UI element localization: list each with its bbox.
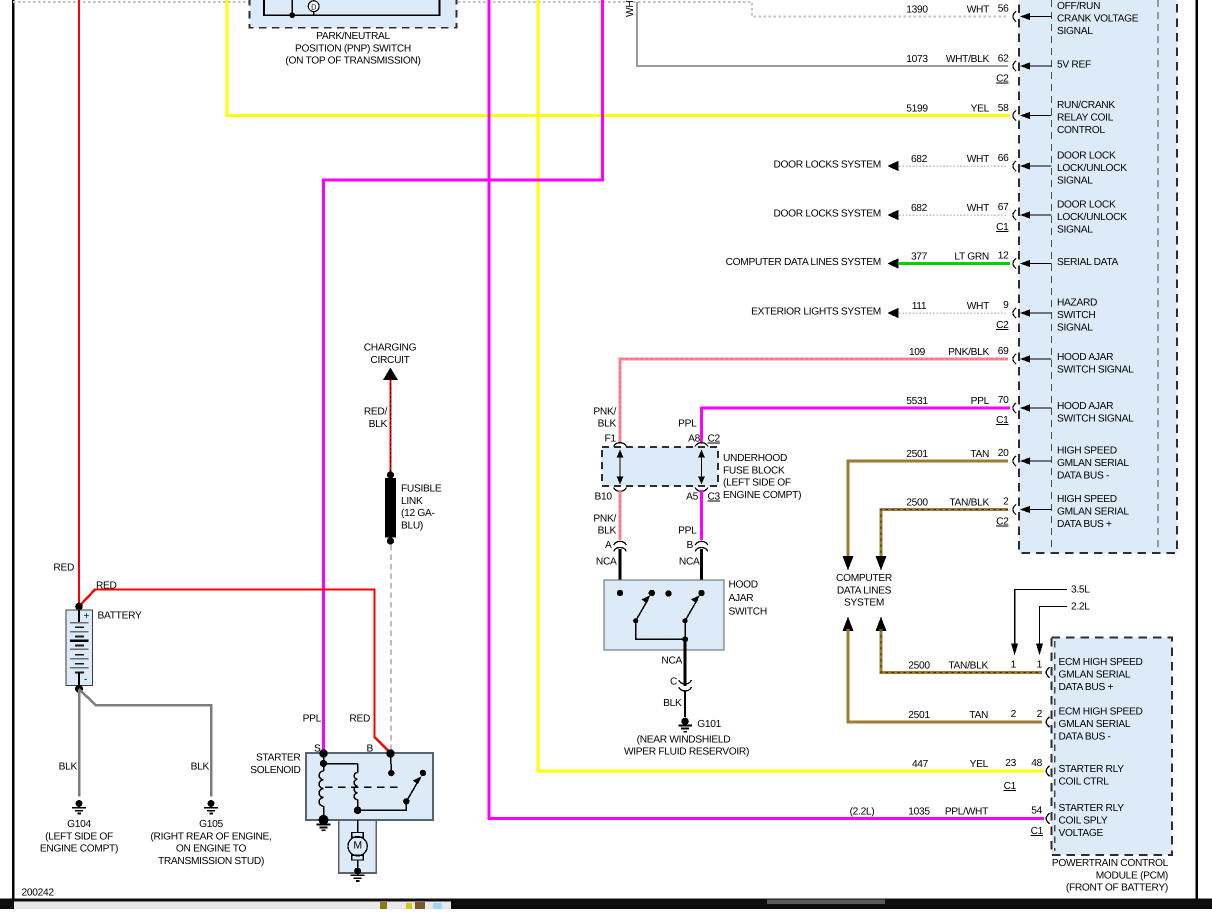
svg-text:D: D xyxy=(311,3,317,12)
node COMPUTER DATA LINES SYSTEM xyxy=(836,573,892,609)
pin 54 xyxy=(1031,806,1044,838)
svg-text:SWITCH: SWITCH xyxy=(729,607,767,618)
PCM pin connector at y=215 xyxy=(1013,200,1127,236)
svg-text:DOOR LOCK: DOOR LOCK xyxy=(1057,151,1116,162)
svg-text:SWITCH: SWITCH xyxy=(1057,310,1095,321)
svg-text:BLK: BLK xyxy=(369,419,388,430)
svg-text:(LEFT SIDE OF: (LEFT SIDE OF xyxy=(723,478,791,489)
svg-text:LOCK/UNLOCK: LOCK/UNLOCK xyxy=(1057,212,1127,223)
svg-text:2500: 2500 xyxy=(906,498,928,509)
PCM connector box (lower) xyxy=(1052,638,1173,856)
pin 70 xyxy=(996,395,1009,426)
svg-text:STARTER RLY: STARTER RLY xyxy=(1059,803,1125,814)
pin 56 xyxy=(998,4,1009,15)
svg-text:SIGNAL: SIGNAL xyxy=(1057,175,1093,186)
wire 377 LT GRN serial data xyxy=(726,252,1010,269)
wire PPL fuse A5 to connector B xyxy=(678,490,701,540)
svg-text:DOOR LOCKS SYSTEM: DOOR LOCKS SYSTEM xyxy=(773,209,881,220)
svg-text:66: 66 xyxy=(998,153,1009,164)
wire BLK battery to ground G105 xyxy=(79,689,211,797)
wire 1390 WHT to PCM pin 56 xyxy=(13,2,1008,17)
svg-text:SWITCH SIGNAL: SWITCH SIGNAL xyxy=(1057,364,1134,375)
svg-text:C1: C1 xyxy=(996,222,1009,233)
svg-text:BLK: BLK xyxy=(598,526,617,537)
svg-text:SOLENOID: SOLENOID xyxy=(250,765,300,776)
svg-text:C1: C1 xyxy=(996,415,1009,426)
svg-text:5531: 5531 xyxy=(906,396,928,407)
svg-text:682: 682 xyxy=(911,154,928,165)
PCM lower pin connector at y=722 xyxy=(1046,707,1142,743)
svg-text:TAN/BLK: TAN/BLK xyxy=(948,661,988,672)
svg-text:+: + xyxy=(84,611,90,622)
ground G104 xyxy=(40,800,118,855)
svg-text:STARTER: STARTER xyxy=(256,753,301,764)
svg-text:12: 12 xyxy=(998,251,1009,262)
PCM pin connector at y=461 xyxy=(1013,446,1129,482)
svg-text:POSITION (PNP) SWITCH: POSITION (PNP) SWITCH xyxy=(295,43,411,54)
svg-text:SERIAL DATA: SERIAL DATA xyxy=(1057,257,1119,268)
svg-text:SIGNAL: SIGNAL xyxy=(1057,26,1093,37)
svg-text:F1: F1 xyxy=(605,434,617,445)
diagram number 200242 xyxy=(22,887,55,898)
svg-text:CHARGING: CHARGING xyxy=(364,343,417,354)
svg-text:TRANSMISSION STUD): TRANSMISSION STUD) xyxy=(158,856,264,867)
svg-text:54: 54 xyxy=(1031,806,1042,817)
PCM lower pin connector at y=672.5 xyxy=(1046,657,1142,693)
wire 5199 YEL run/crank relay coil control xyxy=(227,0,1010,116)
svg-text:(FRONT OF BATTERY): (FRONT OF BATTERY) xyxy=(1066,883,1168,894)
svg-text:BLK: BLK xyxy=(191,762,210,773)
svg-text:G101: G101 xyxy=(697,719,721,730)
PCM lower pin connector at y=771 xyxy=(1046,764,1124,787)
pin 20 xyxy=(998,448,1009,459)
node 2.2L pin designator xyxy=(1036,602,1090,656)
starter motor M xyxy=(339,820,376,874)
svg-text:B10: B10 xyxy=(595,492,613,503)
svg-text:1073: 1073 xyxy=(906,54,928,65)
svg-text:CRANK VOLTAGE: CRANK VOLTAGE xyxy=(1057,14,1139,25)
svg-text:AJAR: AJAR xyxy=(729,593,754,604)
svg-text:ECM HIGH SPEED: ECM HIGH SPEED xyxy=(1059,657,1143,668)
svg-text:682: 682 xyxy=(911,203,928,214)
svg-text:OFF/RUN: OFF/RUN xyxy=(1057,1,1100,12)
wire fusible link to solenoid B (unspecified) xyxy=(390,545,392,751)
svg-text:200242: 200242 xyxy=(22,887,55,898)
svg-text:CIRCUIT: CIRCUIT xyxy=(370,355,409,366)
svg-text:HIGH SPEED: HIGH SPEED xyxy=(1057,494,1117,505)
wire 5531 PPL hood ajar to fuse A8 xyxy=(678,396,1010,442)
pin 23/48 xyxy=(1004,758,1043,792)
PCM lower pin connector at y=818.5 xyxy=(1046,803,1124,839)
svg-text:TAN: TAN xyxy=(970,449,989,460)
pin 66 xyxy=(998,153,1009,164)
svg-text:A5: A5 xyxy=(686,492,698,503)
svg-text:SIGNAL: SIGNAL xyxy=(1057,322,1093,333)
wire 111 WHT hazard switch signal xyxy=(751,301,1008,318)
wire 2501 TAN gmlan bus - to data lines arrow xyxy=(843,449,1009,571)
svg-text:DATA LINES: DATA LINES xyxy=(837,585,892,596)
svg-text:TAN/BLK: TAN/BLK xyxy=(949,498,989,509)
wire RED battery positive feed xyxy=(53,0,79,605)
pin 12 xyxy=(998,251,1009,262)
wire NCA connector B to hood ajar switch xyxy=(700,549,703,593)
svg-text:HOOD AJAR: HOOD AJAR xyxy=(1057,352,1113,363)
svg-text:BLK: BLK xyxy=(663,698,682,709)
svg-text:COIL CTRL: COIL CTRL xyxy=(1059,776,1110,787)
svg-text:69: 69 xyxy=(998,346,1009,357)
svg-text:48: 48 xyxy=(1031,758,1042,769)
svg-text:1: 1 xyxy=(1037,660,1043,671)
svg-text:109: 109 xyxy=(909,347,926,358)
wire 682 WHT door lock row pin 67 xyxy=(773,203,1008,220)
starter solenoid xyxy=(250,744,433,825)
PCM pin connector at y=263.5 xyxy=(1013,257,1119,269)
svg-text:C2: C2 xyxy=(996,74,1009,85)
svg-text:RED: RED xyxy=(349,714,370,725)
pin 1 ECM xyxy=(1011,660,1043,671)
svg-text:SWITCH SIGNAL: SWITCH SIGNAL xyxy=(1057,413,1134,424)
svg-text:G105: G105 xyxy=(199,819,223,830)
svg-text:2: 2 xyxy=(1003,497,1009,508)
wire PPL to starter solenoid terminal S xyxy=(303,0,603,752)
PCM pin connector at y=16.5 xyxy=(1013,1,1139,37)
svg-text:B: B xyxy=(367,744,374,755)
svg-text:20: 20 xyxy=(998,448,1009,459)
svg-text:ENGINE COMPT): ENGINE COMPT) xyxy=(40,844,118,855)
svg-text:HOOD AJAR: HOOD AJAR xyxy=(1057,401,1113,412)
pin 62 xyxy=(996,54,1009,85)
svg-text:2: 2 xyxy=(1037,709,1043,720)
PCM connector box (upper) xyxy=(1019,0,1177,553)
svg-text:PPL: PPL xyxy=(971,396,990,407)
svg-text:POWERTRAIN CONTROL: POWERTRAIN CONTROL xyxy=(1052,858,1169,869)
svg-text:GMLAN SERIAL: GMLAN SERIAL xyxy=(1059,670,1131,681)
svg-text:5V REF: 5V REF xyxy=(1057,60,1091,71)
PCM pin connector at y=509.5 xyxy=(1013,494,1129,530)
svg-text:23: 23 xyxy=(1005,758,1016,769)
fusible link (12 GA-BLU) xyxy=(385,471,442,544)
svg-text:5199: 5199 xyxy=(906,104,928,115)
svg-text:LOCK/UNLOCK: LOCK/UNLOCK xyxy=(1057,163,1127,174)
connector A xyxy=(596,540,626,568)
svg-text:HOOD: HOOD xyxy=(729,580,758,591)
battery xyxy=(66,603,142,693)
pin 67 xyxy=(996,202,1009,233)
svg-text:-: - xyxy=(84,674,87,685)
wire 2500 TAN/BLK from data lines to ECM pin 1 xyxy=(876,617,1043,673)
PCM pin connector at y=115.5 xyxy=(1013,100,1115,136)
node 3.5L pin designator xyxy=(1011,585,1090,656)
svg-text:EXTERIOR LIGHTS SYSTEM: EXTERIOR LIGHTS SYSTEM xyxy=(751,307,881,318)
svg-text:2: 2 xyxy=(1011,709,1017,720)
svg-text:NCA: NCA xyxy=(679,557,700,568)
svg-text:58: 58 xyxy=(998,103,1009,114)
connector C xyxy=(670,677,691,691)
svg-text:PPL: PPL xyxy=(678,419,697,430)
pin 2 xyxy=(996,497,1009,528)
svg-text:NCA: NCA xyxy=(661,656,682,667)
svg-text:PPL: PPL xyxy=(303,714,322,725)
svg-text:SIGNAL: SIGNAL xyxy=(1057,224,1093,235)
PCM pin connector at y=66 xyxy=(1013,60,1091,72)
svg-text:9: 9 xyxy=(1003,300,1009,311)
svg-text:HIGH SPEED: HIGH SPEED xyxy=(1057,446,1117,457)
svg-text:RED: RED xyxy=(96,580,117,591)
svg-text:PPL/WHT: PPL/WHT xyxy=(945,807,988,818)
wire 109 PNK/BLK hood ajar to fuse F1 xyxy=(593,347,1008,442)
wire PNK/BLK fuse B10 to connector A xyxy=(593,490,620,540)
svg-text:TAN: TAN xyxy=(969,710,988,721)
ground at solenoid coil xyxy=(316,824,330,832)
svg-text:ECM HIGH SPEED: ECM HIGH SPEED xyxy=(1059,707,1143,718)
svg-text:DATA BUS +: DATA BUS + xyxy=(1057,519,1112,530)
svg-text:GMLAN SERIAL: GMLAN SERIAL xyxy=(1057,458,1129,469)
pin 69 xyxy=(998,346,1009,357)
svg-text:UNDERHOOD: UNDERHOOD xyxy=(723,453,787,464)
svg-text:MODULE (PCM): MODULE (PCM) xyxy=(1096,870,1168,881)
svg-text:STARTER RLY: STARTER RLY xyxy=(1059,764,1125,775)
svg-text:RED: RED xyxy=(53,563,74,574)
svg-text:PNK/: PNK/ xyxy=(593,513,616,524)
svg-text:COIL SPLY: COIL SPLY xyxy=(1059,816,1108,827)
ground at starter motor xyxy=(351,874,365,882)
park/neutral position switch box xyxy=(250,0,457,67)
svg-text:C: C xyxy=(670,677,677,688)
svg-text:WHT/BLK: WHT/BLK xyxy=(946,54,990,65)
svg-text:B: B xyxy=(687,540,694,551)
svg-text:BATTERY: BATTERY xyxy=(98,611,142,622)
svg-text:2501: 2501 xyxy=(908,710,930,721)
svg-text:DOOR LOCK: DOOR LOCK xyxy=(1057,200,1116,211)
node CHARGING CIRCUIT xyxy=(364,343,417,380)
svg-text:YEL: YEL xyxy=(971,104,990,115)
svg-text:PPL: PPL xyxy=(678,526,697,537)
wire BLK connector C to ground G101 xyxy=(663,692,685,718)
svg-text:VOLTAGE: VOLTAGE xyxy=(1059,828,1104,839)
svg-text:PARK/NEUTRAL: PARK/NEUTRAL xyxy=(316,31,390,42)
svg-text:62: 62 xyxy=(998,54,1009,65)
svg-text:2500: 2500 xyxy=(908,661,930,672)
svg-text:2501: 2501 xyxy=(906,449,928,460)
PCM pin connector at y=359 xyxy=(1013,352,1134,375)
svg-text:YEL: YEL xyxy=(970,759,989,770)
wire BLK battery to ground G104 xyxy=(59,689,79,797)
svg-text:A: A xyxy=(605,540,612,551)
svg-text:ON ENGINE TO: ON ENGINE TO xyxy=(176,844,247,855)
wire RED battery to starter solenoid B xyxy=(79,580,391,753)
wire 682 WHT door lock row pin 66 xyxy=(773,154,1008,171)
PCM pin connector at y=313 xyxy=(1013,298,1097,334)
svg-text:(NEAR WINDSHIELD: (NEAR WINDSHIELD xyxy=(637,735,731,746)
svg-text:111: 111 xyxy=(912,301,927,312)
ground G105 xyxy=(150,800,271,867)
svg-text:DATA BUS +: DATA BUS + xyxy=(1059,682,1114,693)
svg-text:GMLAN SERIAL: GMLAN SERIAL xyxy=(1057,507,1129,518)
svg-text:DOOR LOCKS SYSTEM: DOOR LOCKS SYSTEM xyxy=(773,160,881,171)
PCM pin connector at y=408 xyxy=(1013,401,1134,424)
svg-text:WHT: WHT xyxy=(967,154,989,165)
pin 2 ECM xyxy=(1011,709,1043,720)
svg-text:(12 GA-: (12 GA- xyxy=(401,508,435,519)
svg-text:WHT: WHT xyxy=(625,0,636,17)
svg-text:2.2L: 2.2L xyxy=(1071,602,1090,613)
ground G101 xyxy=(624,718,749,758)
wire NCA connector A to hood ajar switch xyxy=(619,549,622,593)
PCM pin connector at y=166 xyxy=(1013,151,1127,187)
svg-text:WIPER FLUID RESERVOIR): WIPER FLUID RESERVOIR) xyxy=(624,747,749,758)
svg-text:(LEFT SIDE OF: (LEFT SIDE OF xyxy=(45,831,113,842)
svg-text:LINK: LINK xyxy=(401,496,423,507)
svg-text:70: 70 xyxy=(998,395,1009,406)
svg-text:G104: G104 xyxy=(67,819,91,830)
PCM label xyxy=(1052,858,1169,894)
hood ajar switch xyxy=(604,580,767,651)
svg-text:RELAY COIL: RELAY COIL xyxy=(1057,113,1114,124)
svg-text:GMLAN SERIAL: GMLAN SERIAL xyxy=(1059,719,1131,730)
svg-text:LT GRN: LT GRN xyxy=(954,252,989,263)
svg-text:COMPUTER: COMPUTER xyxy=(836,573,892,584)
wire 447 YEL starter rly coil ctrl xyxy=(538,0,1044,771)
pin 9 xyxy=(996,300,1009,331)
connector B xyxy=(679,540,708,568)
svg-text:BLK: BLK xyxy=(59,762,78,773)
svg-text:C2: C2 xyxy=(996,320,1009,331)
wire 1035 PPL/WHT starter rly coil sply voltage xyxy=(489,0,1044,819)
svg-text:1390: 1390 xyxy=(906,5,928,16)
svg-text:FUSE BLOCK: FUSE BLOCK xyxy=(723,465,785,476)
svg-text:3.5L: 3.5L xyxy=(1071,585,1090,596)
svg-text:C1: C1 xyxy=(1031,826,1044,837)
svg-text:DATA BUS -: DATA BUS - xyxy=(1059,731,1111,742)
svg-text:1035: 1035 xyxy=(908,807,930,818)
wire 1073 WHT/BLK to PCM pin 62 xyxy=(625,0,1008,66)
svg-text:C2: C2 xyxy=(996,517,1009,528)
wire NCA hood ajar switch to connector C xyxy=(661,639,685,686)
svg-text:DATA BUS -: DATA BUS - xyxy=(1057,470,1109,481)
svg-text:COMPUTER DATA LINES SYSTEM: COMPUTER DATA LINES SYSTEM xyxy=(726,257,881,268)
svg-text:C2: C2 xyxy=(708,434,721,445)
svg-text:FUSIBLE: FUSIBLE xyxy=(401,484,442,495)
pin 58 xyxy=(998,103,1009,114)
wire RED/BLK fusible link to charging circuit xyxy=(364,379,391,474)
svg-text:BLK: BLK xyxy=(598,419,617,430)
svg-text:WHT: WHT xyxy=(967,301,989,312)
wire 2501 TAN from data lines to ECM pin 2 xyxy=(843,617,1043,723)
svg-text:(ON TOP OF TRANSMISSION): (ON TOP OF TRANSMISSION) xyxy=(285,56,420,67)
svg-text:(RIGHT REAR OF ENGINE,: (RIGHT REAR OF ENGINE, xyxy=(150,831,271,842)
svg-text:C1: C1 xyxy=(1004,781,1017,792)
svg-text:NCA: NCA xyxy=(596,557,617,568)
svg-text:CONTROL: CONTROL xyxy=(1057,125,1105,136)
svg-text:67: 67 xyxy=(998,202,1009,213)
svg-text:447: 447 xyxy=(912,759,929,770)
svg-text:HAZARD: HAZARD xyxy=(1057,298,1097,309)
svg-text:C3: C3 xyxy=(708,492,721,503)
svg-text:BLU): BLU) xyxy=(401,520,423,531)
svg-text:377: 377 xyxy=(911,252,928,263)
svg-text:ENGINE COMPT): ENGINE COMPT) xyxy=(723,490,801,501)
svg-text:PNK/BLK: PNK/BLK xyxy=(948,347,989,358)
svg-text:(2.2L): (2.2L) xyxy=(850,807,875,818)
svg-text:PNK/: PNK/ xyxy=(593,407,616,418)
svg-text:M: M xyxy=(353,840,361,852)
svg-text:RED/: RED/ xyxy=(364,407,388,418)
svg-text:SYSTEM: SYSTEM xyxy=(844,598,884,609)
wire 2500 TAN/BLK gmlan bus + to data lines arrow xyxy=(876,498,1009,571)
svg-text:WHT: WHT xyxy=(967,5,989,16)
underhood fuse block xyxy=(595,434,802,503)
svg-text:56: 56 xyxy=(998,4,1009,15)
svg-text:WHT: WHT xyxy=(967,203,989,214)
svg-text:RUN/CRANK: RUN/CRANK xyxy=(1057,100,1115,111)
svg-text:1: 1 xyxy=(1011,660,1017,671)
